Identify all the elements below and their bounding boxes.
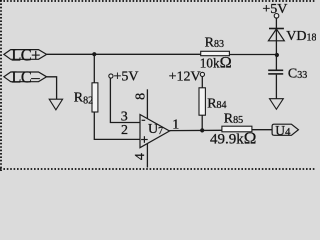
wire LC- to ground xyxy=(47,77,57,99)
connector LC- xyxy=(4,68,47,87)
svg-text:U4: U4 xyxy=(275,123,291,138)
svg-text:8: 8 xyxy=(133,93,148,100)
capacitor C33 xyxy=(268,66,307,81)
node junction diode/C33 on LC+ net xyxy=(275,53,279,57)
wire R84 bottom lead xyxy=(201,115,203,130)
svg-text:+5V: +5V xyxy=(114,69,139,84)
diode VD18 xyxy=(268,29,316,45)
wire R85 to U4 xyxy=(252,129,272,131)
wire op-amp output to R85 xyxy=(170,129,222,131)
wire +5V top right through diode to C33 xyxy=(275,18,277,70)
resistor R85 xyxy=(210,112,256,148)
wire op-amp pin 4 stub xyxy=(146,144,148,168)
node junction on LC+ net xyxy=(92,52,96,56)
page border dots (decorative) xyxy=(0,0,316,171)
svg-text:LC–: LC– xyxy=(11,68,40,87)
ground (below C33) xyxy=(270,99,284,110)
wire C33 to ground xyxy=(275,75,277,99)
wire LC+ net horizontal xyxy=(47,53,277,55)
svg-text:LC+: LC+ xyxy=(11,45,40,64)
wire +5V to pin 3 xyxy=(110,78,140,122)
wire R82 bottom lead to pin 2 xyxy=(94,112,140,140)
svg-text:49.9kΩ: 49.9kΩ xyxy=(210,128,256,147)
resistor R82 xyxy=(74,83,98,112)
inverting input minus sign xyxy=(142,119,146,121)
svg-text:2: 2 xyxy=(121,123,128,138)
op-amp U7 xyxy=(121,93,180,160)
power +5V terminal (top right) xyxy=(262,2,287,18)
svg-text:4: 4 xyxy=(133,153,148,160)
resistor R84 xyxy=(199,88,227,115)
wire R82 top lead xyxy=(93,54,95,83)
wire op-amp pin 8 stub xyxy=(146,89,148,118)
non-inverting input plus sign xyxy=(141,139,148,141)
ground (below LC-) xyxy=(49,99,62,110)
connector U4 xyxy=(272,123,298,138)
connector LC+ xyxy=(4,45,47,64)
svg-text:+12V: +12V xyxy=(169,70,201,85)
power +12V terminal xyxy=(169,70,205,85)
node junction on output net xyxy=(200,128,204,132)
wire +12V to R84 xyxy=(201,76,203,87)
power +5V terminal (middle) xyxy=(109,69,139,84)
resistor R83 xyxy=(200,36,232,72)
svg-text:1: 1 xyxy=(172,117,179,132)
svg-text:10kΩ: 10kΩ xyxy=(200,52,232,71)
